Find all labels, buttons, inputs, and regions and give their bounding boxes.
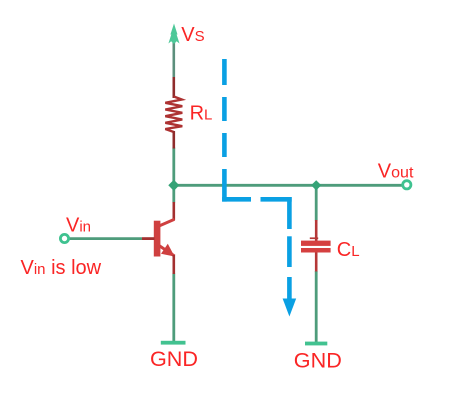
svg-text:GND: GND — [150, 346, 198, 371]
svg-text:VS: VS — [181, 24, 204, 46]
svg-text:Vout: Vout — [378, 161, 414, 183]
svg-text:CL: CL — [337, 239, 360, 261]
svg-text:GND: GND — [294, 347, 342, 372]
svg-text:Vin is low: Vin is low — [21, 257, 102, 279]
svg-text:Vin: Vin — [66, 214, 91, 236]
svg-text:RL: RL — [190, 103, 213, 125]
